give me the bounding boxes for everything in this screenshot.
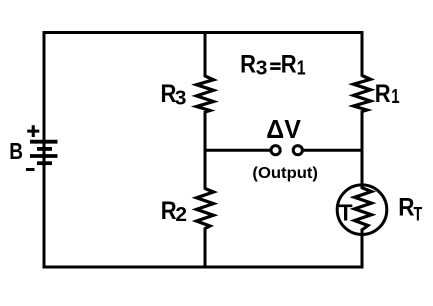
- label T: [339, 199, 353, 225]
- svg-text:T: T: [339, 199, 353, 225]
- wire: output left segment: [204, 149, 270, 152]
- svg-text:1: 1: [391, 85, 399, 108]
- svg-text:T: T: [414, 203, 423, 225]
- thermistor T zigzag: [355, 188, 372, 230]
- svg-text:R: R: [375, 80, 391, 108]
- wire: right branch middle: [361, 111, 364, 190]
- wire: left branch: [43, 31, 46, 269]
- svg-text:2: 2: [175, 203, 187, 225]
- resistor R3: [197, 76, 214, 112]
- label R3: [161, 80, 187, 110]
- label R1: [375, 80, 400, 108]
- wire: middle branch top: [204, 31, 207, 77]
- label B: [9, 140, 23, 165]
- wire: right branch top: [361, 31, 364, 77]
- terminal: output left: [271, 146, 280, 155]
- label (Output): [252, 164, 318, 182]
- svg-text:R: R: [161, 197, 177, 225]
- label battery minus: [26, 168, 35, 171]
- svg-text:R: R: [240, 50, 256, 78]
- svg-text:3: 3: [256, 57, 268, 79]
- svg-text:1: 1: [297, 57, 306, 79]
- wire: bottom rail: [43, 266, 364, 269]
- resistor R2: [197, 189, 214, 229]
- svg-text:ΔV: ΔV: [266, 116, 301, 145]
- label R2: [161, 197, 187, 226]
- resistor R1: [354, 76, 371, 112]
- label R3=R1: [240, 50, 306, 79]
- wire: middle branch middle: [204, 111, 207, 190]
- terminal: output right: [293, 146, 302, 155]
- thermistor T circle: [337, 185, 387, 235]
- wire: right branch bottom: [361, 229, 364, 269]
- wire: middle branch bottom: [204, 228, 207, 269]
- label battery plus: [27, 125, 39, 137]
- wire: top rail: [43, 31, 364, 34]
- svg-text:B: B: [9, 140, 23, 165]
- wire: output right segment: [304, 149, 364, 152]
- battery B: [30, 142, 58, 164]
- svg-text:R: R: [281, 50, 297, 78]
- label RT: [398, 193, 422, 225]
- label delta V: [266, 116, 301, 145]
- svg-text:R: R: [398, 193, 414, 221]
- svg-text:(Output): (Output): [252, 164, 318, 182]
- svg-text:3: 3: [175, 87, 187, 109]
